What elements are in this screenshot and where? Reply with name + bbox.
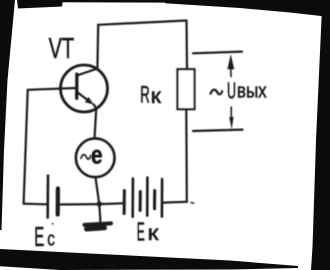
output bracket bottom tick [193,130,243,131]
transistor VT circle [61,65,108,112]
wire collector vertical [96,25,99,69]
wire source to junction [96,177,100,204]
scan border right wedge [311,8,330,270]
stray speck above EC label [52,223,54,225]
battery EC long bar [46,176,49,218]
source ~e circle [76,139,114,177]
scan border top thin strip [60,0,170,3]
svg-text:к: к [148,222,160,245]
transistor VT collector diagonal [77,68,98,75]
scan border top-left block [17,0,63,9]
wire bottom-right corner to battery EK [163,201,187,204]
wire left vertical [24,90,28,204]
wire junction to battery EC [59,203,100,206]
wire emitter to source [94,104,97,138]
battery EK bar 2 long [131,179,134,217]
transistor VT emitter arrowhead [85,97,94,105]
scan border left wedge [0,0,15,230]
output arrow up stem [230,69,232,77]
wire right branch lower [185,109,188,202]
battery EK bar 1 short [123,191,126,214]
output bracket top tick [193,52,242,54]
resistor RK body [178,69,195,109]
battery EK bar 6 long [161,179,164,217]
source tilde [81,155,91,159]
ground bar 2 [87,228,105,229]
battery EK bar 5 short [153,191,156,209]
svg-text:VT: VT [49,33,75,65]
output tilde [211,90,223,95]
output arrow down head [229,117,233,129]
battery EK bar 4 long [146,178,149,216]
output arrow down stem [230,107,232,118]
transistor VT emitter diagonal [77,92,91,103]
battery EK bar 3 short [139,192,142,211]
scan border bottom band [0,249,298,270]
svg-text:к: к [151,85,162,108]
svg-text:U: U [227,77,236,103]
svg-text:R: R [140,82,150,109]
svg-text:с: с [47,229,55,251]
stray tick near corner [191,202,194,205]
wire battery EK to junction [99,202,123,205]
ground stem [99,204,100,222]
svg-text:Е: Е [137,219,145,247]
transistor VT base bar [75,74,79,98]
scan border top-right wedge [165,0,330,17]
svg-text:вых: вых [237,80,267,102]
wire right branch upper [185,21,188,70]
wire battery EC to left corner [24,203,47,206]
junction dot [97,201,102,206]
svg-text:e: e [91,139,103,169]
battery EC short bar [56,189,60,215]
output arrow up head [227,54,234,69]
svg-text:E: E [34,221,44,252]
wire top horizontal [98,21,187,25]
ground bar 1 [85,223,112,225]
wire base horizontal [28,88,77,90]
